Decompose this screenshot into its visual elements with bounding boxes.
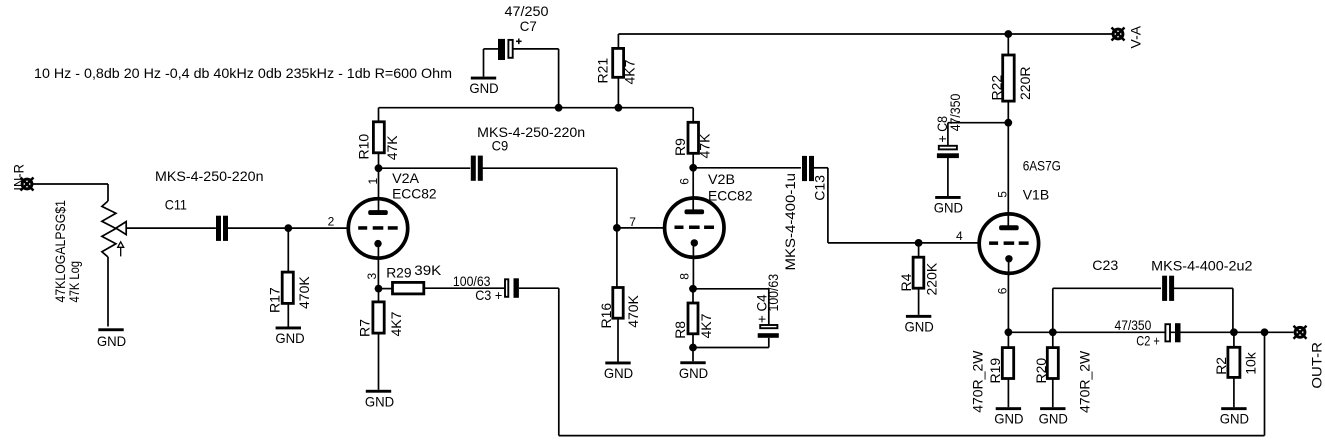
svg-text:10k: 10k	[1242, 351, 1258, 375]
svg-text:47K: 47K	[697, 133, 713, 159]
svg-text:3: 3	[365, 273, 379, 280]
svg-text:6: 6	[995, 287, 1009, 294]
svg-text:MKS-4-400-1u: MKS-4-400-1u	[782, 173, 798, 271]
svg-text:470R_2W: 470R_2W	[1077, 350, 1093, 413]
svg-text:OUT-R: OUT-R	[1309, 342, 1325, 389]
svg-text:220R: 220R	[1017, 67, 1033, 100]
svg-text:R21: R21	[595, 58, 611, 84]
svg-text:GND: GND	[275, 330, 304, 346]
svg-text:GND: GND	[365, 393, 394, 409]
svg-text:MKS-4-250-220n: MKS-4-250-220n	[155, 168, 264, 184]
svg-text:1: 1	[366, 178, 380, 185]
svg-text:4K7: 4K7	[698, 313, 714, 338]
svg-text:V1B: V1B	[1023, 186, 1049, 202]
svg-text:MKS-4-400-2u2: MKS-4-400-2u2	[1151, 258, 1253, 274]
svg-text:C23: C23	[1092, 257, 1118, 273]
svg-text:ECC82: ECC82	[392, 185, 437, 201]
svg-text:GND: GND	[469, 80, 498, 96]
svg-text:R20: R20	[1033, 358, 1049, 384]
svg-text:V2B: V2B	[708, 171, 735, 187]
svg-text:4K7: 4K7	[388, 311, 404, 336]
svg-text:R2: R2	[1213, 357, 1229, 375]
svg-text:C11: C11	[165, 196, 187, 212]
svg-text:C7: C7	[520, 18, 537, 34]
svg-text:R22: R22	[988, 75, 1004, 101]
svg-text:4K7: 4K7	[622, 59, 638, 84]
svg-text:220K: 220K	[923, 262, 939, 295]
svg-text:GND: GND	[994, 411, 1023, 427]
svg-text:GND: GND	[934, 200, 963, 216]
svg-text:GND: GND	[1220, 411, 1249, 427]
svg-text:100/63: 100/63	[765, 274, 781, 312]
svg-text:C3 +: C3 +	[475, 287, 502, 303]
svg-text:IN-R: IN-R	[10, 164, 26, 191]
svg-text:GND: GND	[1039, 411, 1068, 427]
svg-text:R16: R16	[598, 303, 614, 329]
svg-text:47K Log: 47K Log	[66, 261, 82, 303]
svg-text:8: 8	[678, 273, 692, 280]
svg-text:R9: R9	[672, 138, 688, 156]
svg-text:7: 7	[629, 215, 636, 229]
svg-text:5: 5	[995, 191, 1009, 198]
svg-text:GND: GND	[679, 365, 708, 381]
svg-text:6AS7G: 6AS7G	[1023, 157, 1061, 173]
svg-text:R19: R19	[987, 358, 1003, 384]
svg-text:R10: R10	[355, 134, 371, 160]
svg-text:R17: R17	[267, 287, 283, 313]
svg-text:10 Hz - 0,8db 20 Hz -0,4 db 40: 10 Hz - 0,8db 20 Hz -0,4 db 40kHz 0db 23…	[34, 65, 452, 81]
svg-text:R4: R4	[898, 273, 914, 291]
svg-text:V2A: V2A	[392, 170, 420, 186]
svg-text:47/350: 47/350	[1115, 317, 1152, 333]
svg-text:4: 4	[956, 229, 963, 243]
svg-text:R8: R8	[672, 321, 688, 339]
svg-text:47/250: 47/250	[505, 3, 549, 19]
svg-text:470K: 470K	[296, 276, 312, 309]
svg-text:GND: GND	[604, 365, 633, 381]
svg-text:6: 6	[678, 178, 692, 185]
svg-text:C9: C9	[492, 138, 509, 154]
svg-text:R29: R29	[386, 264, 412, 280]
svg-text:470R_2W: 470R_2W	[969, 350, 985, 413]
svg-text:470K: 470K	[625, 294, 641, 327]
svg-text:2: 2	[328, 215, 335, 229]
svg-text:47/350: 47/350	[947, 94, 963, 132]
svg-text:R7: R7	[357, 319, 373, 337]
svg-text:39K: 39K	[414, 262, 442, 278]
svg-text:47K: 47K	[384, 135, 400, 161]
svg-text:GND: GND	[904, 318, 933, 334]
svg-text:C13: C13	[812, 175, 828, 201]
svg-text:ECC82: ECC82	[708, 187, 753, 203]
svg-text:V-A: V-A	[1128, 25, 1144, 48]
svg-text:GND: GND	[97, 333, 126, 349]
svg-text:C2 +: C2 +	[1136, 332, 1160, 348]
